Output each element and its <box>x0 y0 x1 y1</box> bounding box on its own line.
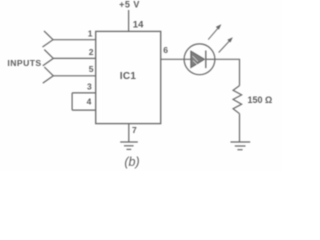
wire: pin 7 to ground <box>128 124 130 142</box>
svg-text:INPUTS: INPUTS <box>7 58 41 68</box>
wire: input 1 to pin 1 <box>53 39 96 41</box>
LED D1 triangle (anode) <box>191 51 205 67</box>
svg-text:3: 3 <box>87 82 92 92</box>
wire: input 3 to pin 5 <box>53 75 95 77</box>
wire: +5V down to IC pin 14 <box>128 10 130 31</box>
svg-text:5: 5 <box>89 64 94 74</box>
wire: resistor to ground <box>239 114 241 142</box>
wire: cathode to circle edge <box>206 58 215 60</box>
svg-text:IC1: IC1 <box>120 71 137 82</box>
input chevron arrow 3 <box>43 67 54 83</box>
wire: pin 6 to LED anode <box>161 58 191 60</box>
LED light emission arrow 2 <box>219 37 233 52</box>
wire: pin 4 stub <box>72 109 96 111</box>
svg-text:150 Ω: 150 Ω <box>248 95 273 105</box>
wire: LED cathode to resistor (horizontal + vertical) <box>215 59 240 85</box>
wire: input 2 to pin 2 <box>53 57 95 59</box>
input chevron arrow 1 <box>43 31 54 47</box>
LED D1 circle <box>184 44 215 75</box>
svg-text:6: 6 <box>163 45 168 55</box>
wire: pin 3 stub <box>72 92 96 94</box>
LED light emission arrow 1 <box>208 24 221 39</box>
IC IC1 box <box>96 31 161 123</box>
svg-text:7: 7 <box>132 125 137 135</box>
wire: vertical joining pin 3 and pin 4 <box>71 93 73 110</box>
svg-text:+5 V: +5 V <box>119 0 140 9</box>
resistor R1 zigzag <box>233 86 242 114</box>
LED D1 cathode bar <box>205 51 207 69</box>
svg-text:4: 4 <box>87 96 92 106</box>
svg-text:2: 2 <box>89 47 94 57</box>
ground symbol under resistor <box>231 142 251 150</box>
svg-text:14: 14 <box>133 20 144 31</box>
ground symbol under pin 7 <box>120 142 138 149</box>
input chevron arrow 2 <box>43 50 54 66</box>
svg-text:1: 1 <box>88 28 93 38</box>
svg-text:(b): (b) <box>124 155 139 169</box>
